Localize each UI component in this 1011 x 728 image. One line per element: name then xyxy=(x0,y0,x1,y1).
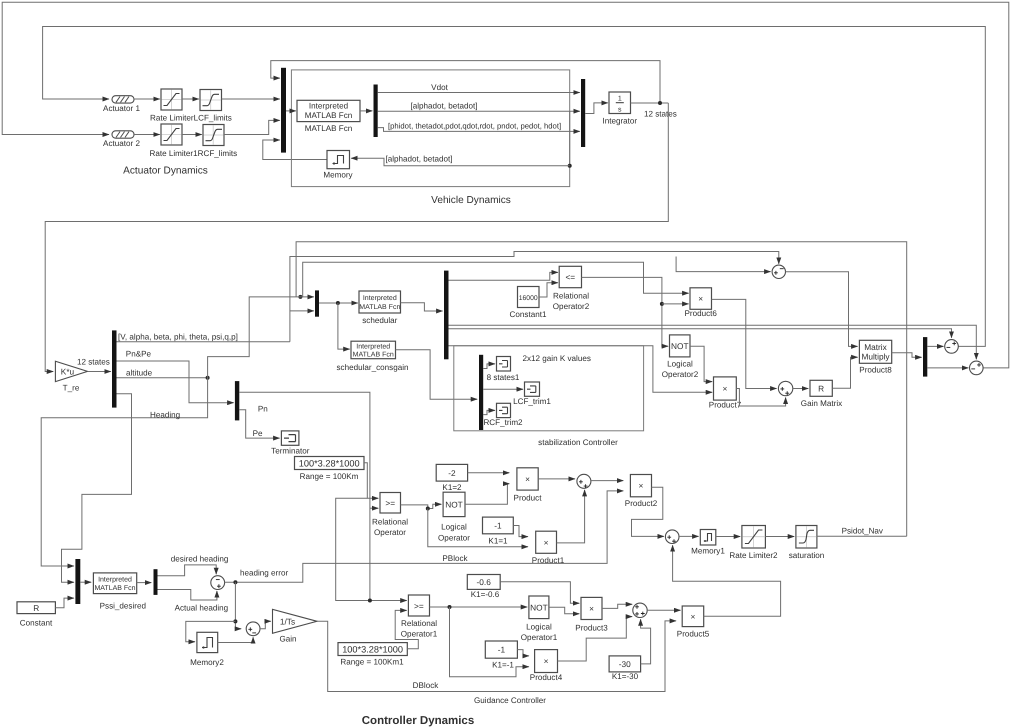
wire Gain output to Product5 in2 xyxy=(317,621,676,692)
wire Rate Limiter1 to RCF_limits xyxy=(182,134,202,136)
svg-text:MATLAB Fcn: MATLAB Fcn xyxy=(94,585,135,592)
block Memory2 xyxy=(197,632,218,652)
svg-text:Operator1: Operator1 xyxy=(401,629,438,638)
wire branch to Memory2 xyxy=(186,621,236,641)
svg-text:-1: -1 xyxy=(494,521,502,531)
svg-text:Logical: Logical xyxy=(667,359,693,368)
mux vehicle-input bar xyxy=(281,68,286,153)
wire -30 to SumD bottom xyxy=(641,619,651,664)
svg-text:Actuator Dynamics: Actuator Dynamics xyxy=(123,165,208,176)
svg-text:DBlock: DBlock xyxy=(413,681,440,690)
wire RelOp1 out to Logical Operator1 xyxy=(430,606,528,608)
svg-text:MATLAB Fcn: MATLAB Fcn xyxy=(353,352,394,359)
wire SumB to Gain Matrix R xyxy=(793,388,809,390)
block LCF_trim1 tag xyxy=(525,382,540,396)
svg-text:12 states: 12 states xyxy=(77,357,110,366)
sum Sum1 circle xyxy=(945,340,959,354)
wire Memory1 to Rate Limiter2 xyxy=(716,536,740,538)
svg-text:Product3: Product3 xyxy=(575,623,608,632)
wire branch to RelOp1 in1 xyxy=(336,498,407,600)
wire Rate Limiter2 to saturation xyxy=(765,536,794,538)
wire Product6 output to SumB left xyxy=(712,299,777,388)
svg-text:Actuator 2: Actuator 2 xyxy=(103,139,140,148)
svg-text:NOT: NOT xyxy=(671,341,689,351)
svg-text:Range = 100Km1: Range = 100Km1 xyxy=(340,657,404,666)
node Product6 in2 junction xyxy=(660,302,664,306)
actuator A2 (Actuator 2 pill) xyxy=(112,131,134,138)
block LCF_limits (saturation) xyxy=(200,90,222,111)
wire -2 to Product in1 xyxy=(468,472,510,474)
wire RelOp2 output down to Product6/NOT xyxy=(582,277,669,346)
wire schedular in1 xyxy=(249,297,314,342)
svg-text:[alphadot, betadot]: [alphadot, betadot] xyxy=(411,101,478,110)
wire SumA output to Matrix Multiply in1 xyxy=(786,272,858,347)
svg-text:×: × xyxy=(638,481,643,491)
svg-text:Controller Dynamics: Controller Dynamics xyxy=(362,715,474,727)
svg-text:stabilization Controller: stabilization Controller xyxy=(538,438,618,447)
wire SumE to Memory1 xyxy=(679,535,699,537)
svg-text:PBlock: PBlock xyxy=(442,554,468,563)
block Logical Operator NOT xyxy=(443,492,465,516)
wire inner feedback loop (Sum1 output to Actuator 1 input) xyxy=(43,27,986,347)
block schedular_consgain (Interpreted MATLAB Fcn) xyxy=(351,341,396,359)
wire bar to Sum2 xyxy=(927,367,968,369)
block Matrix Multiply xyxy=(859,340,891,363)
wire V-branch down-left to Pssi mux in1 xyxy=(41,342,249,566)
svg-text:Constant1: Constant1 xyxy=(510,310,547,319)
svg-text:Pn: Pn xyxy=(258,405,268,414)
demux output bar xyxy=(923,337,927,377)
svg-text:K1=2: K1=2 xyxy=(442,483,462,492)
wire long line 1 (to Sum2 top) xyxy=(449,325,977,359)
svg-text:Constant: Constant xyxy=(20,618,53,627)
block Product3 xyxy=(581,597,602,619)
wire Product2 output to SumE xyxy=(632,487,664,536)
svg-text:×: × xyxy=(690,611,695,621)
svg-text:16000: 16000 xyxy=(519,295,538,302)
wire -1 to Product1 in1 xyxy=(513,526,528,537)
node heading error junction xyxy=(233,580,237,584)
block Memory xyxy=(327,151,350,169)
block Rate Limiter2 xyxy=(742,526,766,549)
wire MATLAB Fcn to state demux xyxy=(360,110,372,112)
block Relational Operator >= xyxy=(380,493,401,514)
wire actual heading to SumF bottom xyxy=(158,590,217,601)
svg-text:Matrix: Matrix xyxy=(864,342,887,352)
sum SumD circle xyxy=(633,603,647,617)
svg-text:Actuator 1: Actuator 1 xyxy=(103,104,140,113)
svg-text:Product5: Product5 xyxy=(677,629,710,638)
svg-text:[V, alpha, beta, phi, theta,: [V, alpha, beta, phi, theta, psi,q,p] xyxy=(118,333,238,342)
wire Constant1 to RelOp2 in2 xyxy=(539,283,558,297)
block Product4 xyxy=(535,650,558,673)
gain T_re triangle xyxy=(55,361,87,381)
wire bar to Sum1 xyxy=(927,345,943,347)
block Product1 xyxy=(536,531,557,553)
wire integrator output with junction xyxy=(631,102,669,104)
wire sumA left input xyxy=(676,257,771,272)
svg-text:saturation: saturation xyxy=(789,551,825,560)
svg-text:Memory: Memory xyxy=(323,171,353,180)
svg-text:R: R xyxy=(33,603,39,613)
wire Psidot_Nav return vertical xyxy=(296,242,907,537)
wire V-vector up branch xyxy=(290,252,779,342)
svg-text:Guidance Controller: Guidance Controller xyxy=(474,696,546,705)
block Logical Operator2 NOT xyxy=(670,335,691,357)
wire Vdot xyxy=(378,92,580,94)
svg-text:MATLAB Fcn: MATLAB Fcn xyxy=(359,304,400,311)
svg-text:schedular_consgain: schedular_consgain xyxy=(337,363,409,372)
svg-text:Rate Limiter2: Rate Limiter2 xyxy=(729,551,778,560)
svg-text:MATLAB Fcn: MATLAB Fcn xyxy=(305,111,353,120)
svg-text:Rate Limiter1RCF_limits: Rate Limiter1RCF_limits xyxy=(150,149,238,158)
wire long line 2 (to Sum1 top) xyxy=(449,329,952,338)
wire SumG to Gain xyxy=(260,621,271,629)
svg-text:Range = 100Km: Range = 100Km xyxy=(300,472,359,481)
node memory2 branch junction xyxy=(233,619,237,623)
svg-text:Operator2: Operator2 xyxy=(553,302,590,311)
wire Pn&Pe feed xyxy=(117,361,234,403)
box Vehicle Dynamics boundary xyxy=(291,70,569,187)
block Terminator xyxy=(281,431,299,445)
svg-text:heading error: heading error xyxy=(240,568,288,577)
wire altitude xyxy=(117,377,208,379)
wire Actuator2 to Rate Limiter1 xyxy=(134,134,160,136)
wire bar out to Product7 in2 xyxy=(449,346,713,393)
wire Pssi_desired to heading demux xyxy=(137,582,152,584)
svg-text:-1: -1 xyxy=(498,645,506,655)
node PBlock input junction xyxy=(426,507,430,511)
svg-text:100*3.28*1000: 100*3.28*1000 xyxy=(342,645,403,655)
block Product7 xyxy=(714,377,737,400)
svg-text:Pn&Pe: Pn&Pe xyxy=(126,349,152,358)
svg-text:-30: -30 xyxy=(619,659,631,669)
svg-text:×: × xyxy=(544,656,549,666)
svg-text:Integrator: Integrator xyxy=(602,116,637,125)
svg-text:Interpreted: Interpreted xyxy=(356,342,390,350)
svg-text:Relational: Relational xyxy=(401,619,437,628)
wire Product1 out to SumC bottom xyxy=(557,490,585,543)
svg-text:2x12 gain K values: 2x12 gain K values xyxy=(523,354,591,363)
wire Product3 out to SumD in1 xyxy=(602,604,632,608)
block Range constant 100*3.28*1000 (2) xyxy=(338,643,407,656)
svg-text:MATLAB Fcn: MATLAB Fcn xyxy=(305,124,353,133)
block RCF_limits (saturation) xyxy=(203,125,224,146)
demux heading bar xyxy=(154,569,158,595)
wire SumD to Product5 in1 xyxy=(647,609,680,611)
wire RCF_limits to vehicle mux in3 xyxy=(224,120,280,134)
svg-text:Memory1: Memory1 xyxy=(691,547,725,556)
wire to schedular_consgain xyxy=(338,303,350,349)
svg-text:Gain Matrix: Gain Matrix xyxy=(801,399,842,408)
wire into Product6 in2 xyxy=(662,303,689,305)
svg-text:×: × xyxy=(698,294,703,304)
wire branch up to 262 line xyxy=(303,262,689,297)
sum SumG circle xyxy=(246,622,260,636)
wire Pe to Terminator xyxy=(239,410,279,438)
block Product6 xyxy=(690,288,712,310)
svg-text:Operator: Operator xyxy=(438,533,470,542)
node consgain junction xyxy=(336,301,340,305)
wire NOT out to Product in2 xyxy=(465,484,509,505)
wire heading error to Product2 in2 xyxy=(225,491,624,582)
node Pn-RelOp1 junction xyxy=(368,599,372,603)
wire Actuator1 to Rate Limiter xyxy=(134,98,160,100)
block Relational Operator1 >= xyxy=(408,595,429,616)
wire Product to SumC xyxy=(538,478,575,480)
mux Pssi input bar xyxy=(75,559,80,604)
svg-text:R: R xyxy=(818,383,824,393)
svg-text:-0.6: -0.6 xyxy=(477,577,492,587)
svg-text:Operator: Operator xyxy=(374,528,406,537)
block -1 constant (K1=-1) xyxy=(485,641,517,658)
block Rate Limiter1 xyxy=(161,124,182,145)
svg-text:Operator1: Operator1 xyxy=(521,633,558,642)
svg-text:LCF_trim1: LCF_trim1 xyxy=(513,397,551,406)
block Pssi_desired (Interpreted MATLAB Fcn) xyxy=(93,573,136,594)
svg-text:Vdot: Vdot xyxy=(431,83,448,92)
svg-text:Product7: Product7 xyxy=(709,400,742,409)
block Integrator 1/s xyxy=(609,92,631,114)
sum SumE circle xyxy=(665,530,679,544)
wire [V, alpha ...] vector xyxy=(117,341,290,343)
svg-text:Memory2: Memory2 xyxy=(190,658,224,667)
svg-text:Interpreted: Interpreted xyxy=(98,575,132,583)
block 8 states1 tag xyxy=(497,357,511,372)
node schedular in1 junction xyxy=(298,295,302,299)
block Rate Limiter xyxy=(161,89,182,110)
gain 1/Ts triangle xyxy=(273,609,318,633)
wire bar to LCF_trim1 xyxy=(483,388,523,390)
wire Pn line down to relational operators xyxy=(239,392,370,600)
svg-text:Interpreted: Interpreted xyxy=(363,294,397,302)
wire -1 to Product4 in1 xyxy=(517,650,529,656)
wire schedular mux in2 stub xyxy=(290,310,314,312)
wire Memory2 out to SumG bottom xyxy=(218,637,253,642)
svg-text:Product1: Product1 xyxy=(532,556,565,565)
svg-text:Gain: Gain xyxy=(279,635,296,644)
demux state bar xyxy=(374,85,378,138)
wire Heading stair down to Pssi mux in2 xyxy=(62,394,132,582)
svg-text:s: s xyxy=(618,106,622,113)
svg-text:altitude: altitude xyxy=(126,368,153,377)
block Relational Operator2 xyxy=(559,266,581,287)
svg-text:Vehicle Dynamics: Vehicle Dynamics xyxy=(431,195,511,206)
wire bar to Integrator xyxy=(585,103,608,114)
wire MM out to output demux xyxy=(892,353,922,358)
wire memory output to mux in4 xyxy=(263,140,327,160)
block Range constant 100*3.28*1000 xyxy=(295,457,365,470)
block RCF_trim2 tag xyxy=(497,403,511,417)
wire [phidot ...] row xyxy=(378,128,580,132)
svg-text:[phidot, thetadot,pdot,qdot,rd: [phidot, thetadot,pdot,qdot,rdot, pndot,… xyxy=(388,122,561,131)
svg-text:RCF_trim2: RCF_trim2 xyxy=(483,418,523,427)
sum SumF circle xyxy=(211,576,225,590)
wire memory feed xyxy=(351,158,570,166)
demux controller states bar xyxy=(112,330,117,407)
block -30 constant xyxy=(609,656,641,672)
wire mux to Interpreted MATLAB Fcn xyxy=(286,110,296,112)
wire alphadot branch down to memory tap xyxy=(569,111,571,166)
wire Constant R to Pssi mux in3 xyxy=(55,598,74,608)
wire NOT2 output to Product7 in1 xyxy=(690,346,712,381)
wire desired heading to SumF top xyxy=(158,565,217,576)
block Product5 xyxy=(682,606,704,627)
svg-text:>=: >= xyxy=(385,498,395,508)
svg-text:Product: Product xyxy=(514,494,543,503)
wire schedular_consgain output to stab mux2 xyxy=(396,350,478,399)
wire LCF_limits to vehicle mux in2 xyxy=(222,98,280,100)
wire integrator feedback to mux in1 xyxy=(271,61,660,103)
block Memory1 xyxy=(700,530,716,546)
wire Product7 out to SumB bottom xyxy=(736,389,785,407)
wire Product4 out to SumD in2 xyxy=(558,617,633,661)
mux stabilization inner bar xyxy=(479,355,483,430)
actuator A1 (Actuator 1 pill) xyxy=(112,96,134,103)
svg-text:Relational: Relational xyxy=(553,292,589,301)
wire RelOp out to Logical Operator NOT xyxy=(401,504,442,508)
wire bar to 8 states1 xyxy=(483,364,495,369)
svg-text:NOT: NOT xyxy=(530,602,548,612)
wire schedular bar to schedular block xyxy=(319,302,358,304)
sum SumA circle xyxy=(772,265,785,278)
wire saturation output Psidot_Nav xyxy=(817,535,907,537)
svg-text:K*u: K*u xyxy=(61,367,75,377)
wire schedular output to stabilization mux xyxy=(401,303,443,311)
svg-text:T_re: T_re xyxy=(63,384,80,393)
svg-text:Multiply: Multiply xyxy=(861,352,890,362)
wire SumC to Product2 in1 xyxy=(591,480,623,482)
svg-text:Psidot_Nav: Psidot_Nav xyxy=(842,527,884,536)
svg-text:K1=-1: K1=-1 xyxy=(492,660,514,669)
svg-text:Operator2: Operator2 xyxy=(662,370,699,379)
block Product2 xyxy=(630,475,651,497)
svg-text:Pssi_desired: Pssi_desired xyxy=(100,602,146,611)
mux schedular bar xyxy=(315,290,319,316)
wire Range const to RelOp in1 xyxy=(364,463,378,499)
svg-text:Actual heading: Actual heading xyxy=(175,604,229,613)
block Product xyxy=(517,468,538,490)
node DBlock junction xyxy=(448,605,452,609)
wire NOT1 out to Product3 in2 xyxy=(549,607,579,614)
svg-text:Interpreted: Interpreted xyxy=(309,101,348,110)
block saturation xyxy=(796,526,817,549)
block Interpreted MATLAB Fcn (vehicle) xyxy=(297,100,360,121)
svg-text:Terminator: Terminator xyxy=(271,446,310,455)
wire Rate Limiter to LCF_limits xyxy=(182,98,199,100)
wire bar out to RelOp2 in1 xyxy=(449,272,558,280)
svg-text:Rate LimiterLCF_limits: Rate LimiterLCF_limits xyxy=(150,113,232,122)
svg-text:K1=1: K1=1 xyxy=(488,537,508,546)
svg-text:×: × xyxy=(722,384,727,394)
node 12-states junction xyxy=(658,101,662,105)
svg-text:[alphadot, betadot]: [alphadot, betadot] xyxy=(386,154,453,163)
svg-text:schedular: schedular xyxy=(362,316,397,325)
wire Product5 output to SumE bottom xyxy=(673,545,781,616)
block -0.6 constant xyxy=(467,575,500,590)
svg-text:8 states1: 8 states1 xyxy=(487,373,520,382)
svg-text:desired heading: desired heading xyxy=(171,554,229,563)
wire -0.6 to Product3 in1 xyxy=(500,582,579,603)
block Constant1 16000 xyxy=(518,287,540,308)
wire outer feedback loop (Sum2 output to Actuator 2 input) xyxy=(2,2,1009,368)
sum Sum2 circle xyxy=(970,361,984,375)
sum SumB circle xyxy=(778,381,792,395)
box stabilization Controller boundary xyxy=(454,346,644,431)
sum SumC circle xyxy=(577,474,591,488)
svg-text:Pe: Pe xyxy=(253,429,263,438)
svg-text:Logical: Logical xyxy=(441,523,467,532)
svg-text:-2: -2 xyxy=(448,468,456,478)
demux Pn/Pe bar xyxy=(235,381,239,420)
svg-text:Heading: Heading xyxy=(150,410,180,419)
wire Range2 wrap to RelOp1 in2 xyxy=(395,610,418,648)
node altitude junction xyxy=(206,376,210,380)
wire T_re to state demux xyxy=(88,371,111,373)
svg-text:100*3.28*1000: 100*3.28*1000 xyxy=(299,459,360,469)
svg-text:Product4: Product4 xyxy=(530,673,563,682)
svg-text:Product8: Product8 xyxy=(859,365,892,374)
block -2 constant xyxy=(436,464,467,481)
wire 12 states feedback down to controller xyxy=(45,103,668,372)
svg-text:<=: <= xyxy=(565,272,575,282)
svg-text:×: × xyxy=(544,537,549,547)
svg-text:>=: >= xyxy=(414,601,424,611)
wire bar to RCF_trim2 xyxy=(483,410,495,414)
block Logical Operator1 NOT xyxy=(529,596,549,619)
svg-text:Logical: Logical xyxy=(526,622,552,631)
svg-text:K1=-0.6: K1=-0.6 xyxy=(471,590,500,599)
wire branch down to Product4 in2 xyxy=(450,607,529,677)
svg-text:1: 1 xyxy=(618,96,622,103)
wire [alphadot, betadot] xyxy=(378,110,580,112)
mux integrator-input bar xyxy=(581,79,585,147)
svg-text:Product6: Product6 xyxy=(684,309,717,318)
svg-text:1/Ts: 1/Ts xyxy=(280,617,295,627)
svg-text:×: × xyxy=(525,474,530,484)
block -1 constant (K1=1) xyxy=(483,517,514,534)
svg-text:K1=-30: K1=-30 xyxy=(612,672,639,681)
svg-text:12 states: 12 states xyxy=(644,110,677,119)
svg-text:Relational: Relational xyxy=(372,517,408,526)
svg-text:NOT: NOT xyxy=(445,499,463,509)
block Gain Matrix R xyxy=(810,380,832,396)
svg-text:×: × xyxy=(589,604,594,614)
block schedular (Interpreted MATLAB Fcn) xyxy=(359,291,401,313)
wire R out to Matrix Multiply in2 xyxy=(832,357,857,388)
svg-text:Product2: Product2 xyxy=(625,499,658,508)
wire Pn stub into RelOp in2 xyxy=(370,507,378,509)
block Constant R xyxy=(17,602,55,614)
node memory tap junction xyxy=(568,164,572,168)
wire branch down to Product1 in2 xyxy=(428,509,528,547)
mux stabilization bar xyxy=(444,271,449,360)
wire Pssi mux to Pssi_desired block xyxy=(80,581,91,583)
wire heading error branch down xyxy=(235,582,241,629)
